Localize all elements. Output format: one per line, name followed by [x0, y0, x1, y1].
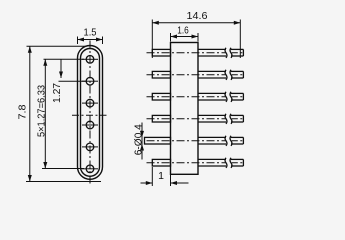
svg-text:1.6: 1.6 [177, 25, 189, 37]
pin 3 [147, 92, 244, 102]
left view horizontal centerline [72, 114, 107, 116]
pin 5 (with extension lines for diameter dim) [145, 136, 244, 146]
left view: connector body outer outline [78, 46, 103, 180]
dimension 1.27 (hole pitch) [59, 59, 87, 81]
svg-text:6-Ø0.4: 6-Ø0.4 [132, 124, 144, 155]
svg-text:7.8: 7.8 [16, 104, 28, 119]
dimension 5x1.27=6.33 (hole pitch span) [42, 59, 84, 168]
dimension 1 (pin setback) [141, 167, 189, 186]
pin 2 [147, 70, 244, 80]
hole 6 [82, 165, 98, 173]
hole 2 [82, 77, 98, 85]
dimension 1.5 (left view width) [78, 37, 103, 45]
svg-text:14.6: 14.6 [187, 10, 208, 22]
hole 4 [82, 121, 98, 129]
hole 5 [82, 143, 98, 151]
pin 1 [147, 48, 244, 58]
pin 4 [147, 114, 244, 124]
pin 6 [147, 158, 244, 168]
svg-text:1.5: 1.5 [84, 27, 97, 39]
right view: insulator body rectangle [171, 43, 199, 175]
svg-text:1.27: 1.27 [51, 83, 63, 103]
left view vertical centerline [89, 41, 91, 186]
dimension 14.6 (overall pin length) [152, 20, 240, 59]
dimension 7.8 (left view height) [26, 46, 101, 181]
hole 1 [82, 56, 98, 64]
dimension 6-O0.4 (pin diameter) [140, 123, 144, 160]
svg-text:1: 1 [158, 170, 164, 182]
left view: connector body inner outline [81, 49, 100, 177]
svg-text:5×1.27=6.33: 5×1.27=6.33 [35, 85, 47, 137]
dimension 1.6 (body width) [171, 33, 199, 42]
hole 3 [82, 99, 98, 107]
